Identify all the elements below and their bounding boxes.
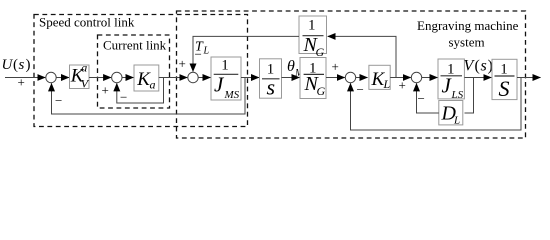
svg-text:−: −	[418, 91, 425, 106]
svg-text:θ: θ	[287, 58, 295, 75]
block 1/s	[260, 59, 282, 100]
svg-text:L: L	[203, 46, 210, 57]
summing junction S2	[112, 72, 122, 82]
block 1/S	[492, 59, 517, 101]
svg-text:−: −	[195, 47, 202, 62]
svg-text:1: 1	[308, 18, 316, 34]
svg-text:L: L	[383, 77, 391, 91]
wire: S3 to block 1/JMS	[198, 77, 210, 79]
block 1/JMS	[211, 57, 241, 101]
summing junction S5	[411, 72, 421, 82]
wire: input U(s) to summing junction S1	[5, 77, 45, 79]
svg-text:s: s	[267, 75, 276, 100]
block 1/NG torque feedback (top)	[299, 16, 327, 59]
svg-text:+: +	[18, 75, 25, 90]
svg-text:(: (	[475, 58, 480, 75]
wire: S2 to block Ka	[122, 77, 134, 79]
wire: KVa to summing junction S2	[89, 77, 111, 79]
svg-text:MS: MS	[224, 89, 240, 101]
wire: current feedback from Ka output down to S2	[117, 78, 164, 104]
svg-text:+: +	[179, 56, 186, 71]
wire: 1/JLS to block 1/S	[464, 77, 491, 79]
dashed box: Engraving machine system	[177, 11, 526, 138]
summing junction S4	[345, 72, 355, 82]
svg-text:Engraving machine: Engraving machine	[417, 18, 519, 33]
svg-text:+: +	[332, 59, 339, 74]
dashed box: Speed control link	[34, 15, 248, 127]
dashed box: Current link	[98, 35, 170, 108]
wire: position feedback from output down and back to S4	[351, 78, 522, 131]
svg-text:−: −	[120, 90, 127, 105]
wire: KL to summing junction S5	[390, 77, 411, 79]
svg-text:): )	[26, 57, 31, 73]
svg-text:L: L	[453, 115, 460, 127]
svg-text:system: system	[449, 35, 485, 50]
block 1/NG main path	[300, 58, 326, 99]
svg-text:Current link: Current link	[103, 38, 167, 53]
svg-text:a: a	[150, 78, 156, 92]
svg-text:S: S	[499, 76, 510, 101]
wire: speed feedback from motor speed node down to S1	[52, 78, 246, 115]
svg-text:1: 1	[221, 58, 229, 74]
svg-text:LS: LS	[451, 89, 464, 101]
wire: 1/JMS to block 1/s	[241, 77, 259, 79]
wire: S5 to block 1/JLS	[422, 77, 438, 79]
svg-text:s: s	[481, 58, 487, 75]
svg-text:(: (	[13, 57, 18, 73]
summing junction S1	[46, 72, 56, 82]
block DL	[439, 101, 463, 127]
svg-text:s: s	[19, 57, 25, 73]
wire: S1 to block KVa	[56, 77, 69, 79]
wire: S4 to block KL	[356, 77, 368, 79]
svg-text:−: −	[55, 93, 62, 108]
svg-text:+: +	[399, 78, 406, 93]
wire: 1/S to output	[517, 77, 541, 79]
svg-text:G: G	[316, 45, 325, 59]
block KVa	[70, 61, 90, 91]
summing junction S3	[188, 72, 198, 82]
wire: DL output to S5 (minus)	[417, 83, 439, 113]
block Ka	[134, 65, 159, 92]
svg-text:G: G	[317, 84, 326, 98]
block KL	[369, 65, 391, 91]
wire: 1/NG to summing junction S4	[326, 77, 345, 79]
svg-text:−: −	[357, 82, 364, 97]
block 1/JLS	[438, 59, 464, 101]
svg-text:+: +	[102, 83, 109, 98]
wire: 1/s to block 1/NG	[282, 77, 300, 79]
wire: top 1/NG output left and down into S3 (load torque TL)	[193, 36, 299, 71]
svg-text:a: a	[81, 61, 87, 75]
wire: KL output tap up and into top 1/NG	[328, 36, 396, 77]
wire: Ka to summing junction S3	[159, 77, 188, 79]
wire: DL damping feedback from V(s) node down	[465, 78, 474, 114]
svg-text:Speed control link: Speed control link	[39, 15, 135, 30]
svg-text:U: U	[2, 57, 14, 73]
